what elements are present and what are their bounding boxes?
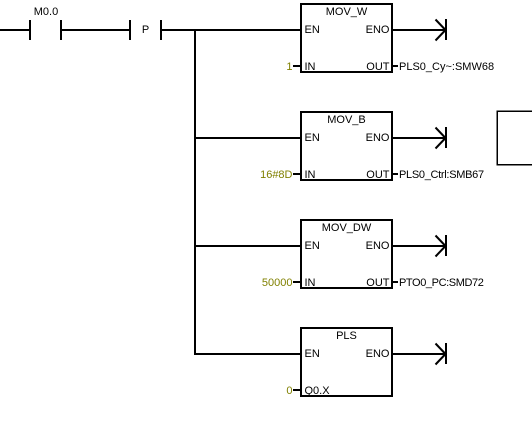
contact M0.0: [29, 6, 62, 40]
instruction box PLS: [301, 328, 392, 397]
wire rung 1 to MOV_W EN: [162, 29, 300, 31]
arrow continuation rung 1: [436, 19, 448, 41]
svg-text:EN: EN: [305, 348, 320, 360]
svg-text:PLS0_Cy~:SMW68: PLS0_Cy~:SMW68: [399, 61, 494, 73]
instruction box MOV_W: [301, 4, 392, 73]
wire rung 3 to MOV_DW EN: [196, 245, 300, 247]
svg-text:ENO: ENO: [366, 348, 390, 360]
svg-text:ENO: ENO: [366, 132, 390, 144]
svg-text:MOV_DW: MOV_DW: [322, 222, 372, 234]
wire left power lead: [0, 29, 29, 31]
svg-text:OUT: OUT: [366, 61, 390, 73]
empty box next network (clipped at right edge): [497, 111, 532, 165]
svg-text:MOV_W: MOV_W: [326, 6, 368, 18]
svg-text:EN: EN: [305, 24, 320, 36]
wire stub MOV_W OUT: [393, 65, 398, 67]
svg-text:IN: IN: [305, 61, 316, 73]
wire stub MOV_DW OUT: [393, 281, 398, 283]
wire MOV_W ENO output: [393, 29, 445, 31]
wire stub MOV_W IN: [293, 65, 300, 67]
svg-text:IN: IN: [305, 277, 316, 289]
wire rung 4 to PLS EN: [196, 353, 300, 355]
svg-text:IN: IN: [305, 169, 316, 181]
wire between contacts: [62, 29, 129, 31]
svg-text:MOV_B: MOV_B: [327, 114, 366, 126]
wire stub MOV_B OUT: [393, 173, 398, 175]
instruction box MOV_B: [301, 112, 392, 181]
svg-text:PLS: PLS: [336, 330, 357, 342]
svg-text:ENO: ENO: [366, 24, 390, 36]
wire PLS ENO output: [393, 353, 445, 355]
svg-text:OUT: OUT: [366, 169, 390, 181]
svg-text:PLS0_Ctrl:SMB67: PLS0_Ctrl:SMB67: [399, 169, 484, 181]
svg-text:0: 0: [286, 385, 292, 397]
arrow continuation rung 3: [436, 235, 448, 257]
svg-text:1: 1: [286, 61, 292, 73]
wire stub PLS Q0.X: [293, 389, 300, 391]
contact P (positive edge): [129, 20, 162, 40]
wire MOV_DW ENO output: [393, 245, 445, 247]
arrow continuation rung 2: [436, 127, 448, 149]
svg-text:EN: EN: [305, 240, 320, 252]
svg-text:Q0.X: Q0.X: [305, 385, 331, 397]
svg-text:P: P: [142, 24, 149, 36]
svg-text:PTO0_PC:SMD72: PTO0_PC:SMD72: [399, 277, 484, 289]
wire rung 2 to MOV_B EN: [196, 137, 300, 139]
svg-text:EN: EN: [305, 132, 320, 144]
arrow continuation rung 4: [436, 343, 448, 365]
svg-text:ENO: ENO: [366, 240, 390, 252]
svg-text:OUT: OUT: [366, 277, 390, 289]
wire stub MOV_B IN: [293, 173, 300, 175]
wire stub MOV_DW IN: [293, 281, 300, 283]
wire vertical branch: [194, 29, 196, 355]
wire MOV_B ENO output: [393, 137, 445, 139]
svg-text:16#8D: 16#8D: [260, 169, 292, 181]
instruction box MOV_DW: [301, 220, 392, 289]
svg-text:M0.0: M0.0: [34, 6, 58, 18]
svg-text:50000: 50000: [262, 277, 293, 289]
